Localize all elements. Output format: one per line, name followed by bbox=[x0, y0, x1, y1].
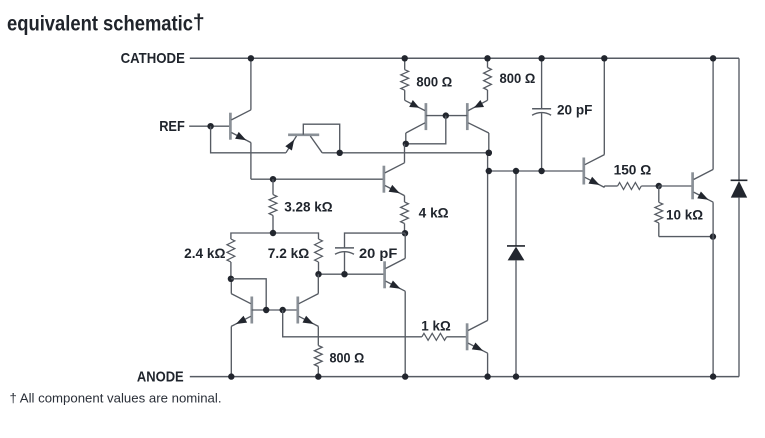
wire Q6 emitter down to 800 bbox=[317, 326, 319, 345]
wire 150 to node bbox=[641, 185, 659, 187]
wire Q11 emitter to anode bbox=[712, 202, 714, 376]
svg-text:4 kΩ: 4 kΩ bbox=[419, 206, 449, 221]
svg-text:20 pF: 20 pF bbox=[359, 246, 397, 261]
diode D1 bbox=[507, 245, 525, 247]
node Q9 emitter anode junction bbox=[484, 373, 490, 379]
node x489 y171 junction bbox=[486, 168, 492, 174]
svg-text:2.4 kΩ: 2.4 kΩ bbox=[184, 246, 226, 261]
wire Q5 emitter down bbox=[404, 196, 406, 202]
node C1 bottom junction bbox=[538, 168, 544, 174]
node Q11 emitter anode junction bbox=[710, 373, 716, 379]
wire Q7 collector up to 4k bbox=[404, 233, 406, 258]
resistor R6 7.2k bbox=[315, 239, 323, 262]
resistor R7 800 (bottom) bbox=[314, 346, 322, 367]
node base junction left bbox=[263, 307, 269, 313]
node 10k emitter junction bbox=[710, 233, 716, 239]
wire mirror diode connection bbox=[406, 116, 446, 144]
node Q11 collector junction bbox=[710, 55, 716, 61]
svg-text:800 Ω: 800 Ω bbox=[330, 350, 365, 365]
wire right edge bottom (diode D2 to anode) bbox=[738, 198, 740, 377]
node D1 anode junction bbox=[513, 373, 519, 379]
node Q7 emitter anode junction bbox=[402, 373, 408, 379]
svg-text:REF: REF bbox=[159, 118, 185, 135]
wire D1 top lead bbox=[515, 171, 517, 246]
wire Q8 collector up bbox=[230, 279, 232, 294]
svg-text:7.2 kΩ: 7.2 kΩ bbox=[268, 246, 310, 261]
svg-text:equivalent schematic: equivalent schematic bbox=[7, 12, 193, 36]
svg-text:†: † bbox=[193, 10, 205, 34]
svg-text:† All component values are nom: † All component values are nominal. bbox=[10, 390, 222, 405]
node ANODE rail bbox=[190, 376, 739, 378]
node Q1 collector junction bbox=[248, 55, 254, 61]
wire Q10 emitter to 150 bbox=[603, 186, 605, 187]
node R1 top junction bbox=[402, 55, 408, 61]
wire Q9 emitter to anode bbox=[487, 353, 489, 376]
resistor R3 800 (right) bbox=[487, 58, 489, 67]
wire base link to 2.4k node bbox=[231, 279, 266, 310]
resistor R4 4k bbox=[401, 202, 409, 224]
wire Q1 collector to cathode bbox=[250, 58, 252, 110]
resistor R9 150 bbox=[618, 183, 642, 190]
resistor R1 800 (left) bbox=[404, 58, 406, 69]
transistor Q1 bbox=[229, 113, 232, 140]
resistor R2 3.28k bbox=[272, 179, 274, 194]
node R3 top junction bbox=[484, 55, 490, 61]
wire Q5 collector up to mirror bbox=[404, 144, 406, 163]
node 4k bottom junction bbox=[402, 230, 408, 236]
wire mirror bases bbox=[426, 115, 467, 117]
node 3.28k top junction bbox=[270, 176, 276, 182]
transistor Q11 (output right) bbox=[691, 172, 694, 199]
transistor Q8 (diode-connected) bbox=[250, 297, 253, 324]
node R7 bottom anode junction bbox=[315, 373, 321, 379]
node CATHODE rail bbox=[190, 57, 739, 59]
transistor Q3 (mirror PNP left) bbox=[425, 103, 428, 130]
node 2.4k bottom junction bbox=[228, 276, 234, 282]
svg-text:20 pF: 20 pF bbox=[557, 103, 592, 118]
node Q3 collector junction bbox=[403, 141, 409, 147]
wire y171 row bbox=[489, 170, 584, 172]
wire Q1 emitter down bbox=[250, 143, 252, 180]
node REF junction bbox=[207, 123, 213, 129]
svg-text:1 kΩ: 1 kΩ bbox=[421, 318, 451, 333]
resistor R10 10k bbox=[658, 186, 660, 202]
svg-text:ANODE: ANODE bbox=[137, 369, 184, 386]
resistor R5 2.4k bbox=[227, 239, 235, 262]
node C2 bottom junction bbox=[341, 271, 347, 277]
diode D2 bbox=[731, 179, 748, 181]
node base junction right bbox=[280, 307, 286, 313]
wire Q2 collector run to mirror bbox=[322, 152, 489, 154]
wire Q8-Q6 bases bbox=[252, 309, 298, 311]
svg-text:800 Ω: 800 Ω bbox=[500, 71, 536, 86]
resistor R8 1k bbox=[422, 333, 447, 340]
transistor Q9 (output) bbox=[466, 323, 469, 350]
wire Q6 collector up to 7.2k bbox=[317, 274, 319, 293]
wire cap C2 to 4k bottom bbox=[345, 233, 406, 248]
wire base node to 1k bbox=[283, 310, 422, 337]
capacitor C1 20pF bbox=[541, 58, 543, 109]
wire node to Q11 base bbox=[659, 185, 693, 187]
wire Q8 emitter to anode bbox=[230, 326, 232, 376]
transistor Q6 bbox=[296, 297, 299, 324]
node Q10 collector junction bbox=[601, 55, 607, 61]
wire 2.4k to 7.2k top bbox=[231, 233, 319, 239]
wire REF node down-right to Q2 emitter bbox=[211, 126, 286, 153]
wire right edge top (cathode to diode D2) bbox=[738, 58, 740, 180]
node 150/10k junction bbox=[656, 183, 662, 189]
node mirror output junction bbox=[486, 150, 492, 156]
wire Q11 collector up bbox=[712, 58, 714, 169]
node D1 top junction bbox=[513, 168, 519, 174]
node Q8 emitter anode junction bbox=[228, 373, 234, 379]
node Q4 collector junction bbox=[486, 150, 492, 156]
svg-text:CATHODE: CATHODE bbox=[121, 50, 185, 67]
wire REF lead bbox=[189, 125, 230, 127]
node C1 top junction bbox=[538, 55, 544, 61]
svg-text:800 Ω: 800 Ω bbox=[416, 74, 452, 89]
capacitor C2 20pF bbox=[335, 247, 354, 249]
node 3.28k bottom junction bbox=[270, 230, 276, 236]
node Q6 collector junction bbox=[315, 271, 321, 277]
node mirror base junction bbox=[443, 112, 449, 118]
wire 1k to Q9 base bbox=[447, 336, 468, 338]
wire Q1 emitter to Q6 base bbox=[251, 178, 384, 180]
node Q2 collector/base junction bbox=[337, 150, 343, 156]
svg-text:3.28 kΩ: 3.28 kΩ bbox=[284, 199, 333, 214]
transistor Q4 (mirror PNP right) bbox=[466, 103, 469, 130]
transistor Q5 bbox=[383, 166, 386, 193]
transistor Q10 (driver) bbox=[582, 158, 585, 185]
svg-text:150 Ω: 150 Ω bbox=[614, 163, 652, 178]
wire D1 bottom lead bbox=[515, 260, 517, 376]
wire Q10 collector up bbox=[603, 58, 605, 154]
transistor Q7 bbox=[383, 261, 386, 288]
wire 7.2k bottom to Q7 base bbox=[319, 273, 385, 275]
transistor Q2 (lateral PNP) bbox=[288, 133, 319, 136]
wire 10k bottom to emitter bbox=[659, 236, 713, 238]
wire Q9 collector up bbox=[487, 153, 489, 321]
wire Q7 emitter to anode bbox=[404, 291, 406, 376]
svg-text:10 kΩ: 10 kΩ bbox=[666, 207, 703, 222]
